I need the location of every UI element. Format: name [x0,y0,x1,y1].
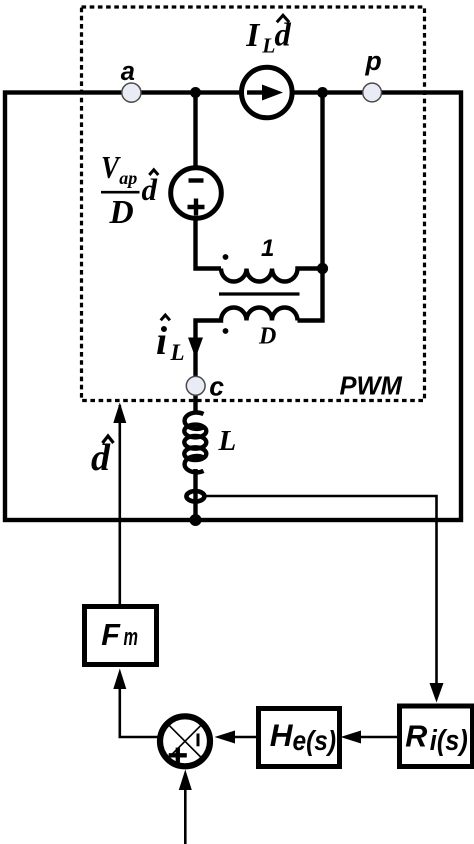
svg-text:I: I [245,17,260,54]
svg-text:PWM: PWM [340,372,403,400]
svg-text:d: d [142,172,158,207]
svg-text:D: D [258,323,276,349]
svg-text:R: R [405,720,427,754]
svg-text:c: c [209,371,224,401]
svg-text:a: a [121,58,135,86]
svg-text:i: i [156,318,167,363]
svg-text:L: L [218,425,237,457]
svg-text:L: L [170,340,185,365]
svg-text:F: F [101,618,121,652]
svg-text:ap: ap [119,168,137,188]
svg-text:H: H [270,717,294,753]
svg-text:d: d [275,18,292,54]
svg-text:p: p [365,46,382,76]
svg-text:i(s): i(s) [430,725,468,757]
svg-text:1: 1 [261,235,274,262]
svg-text:e(s): e(s) [293,725,337,756]
svg-text:m: m [124,624,139,651]
svg-text:L: L [261,34,275,58]
svg-text:d: d [91,437,111,479]
svg-text:D: D [109,194,134,231]
